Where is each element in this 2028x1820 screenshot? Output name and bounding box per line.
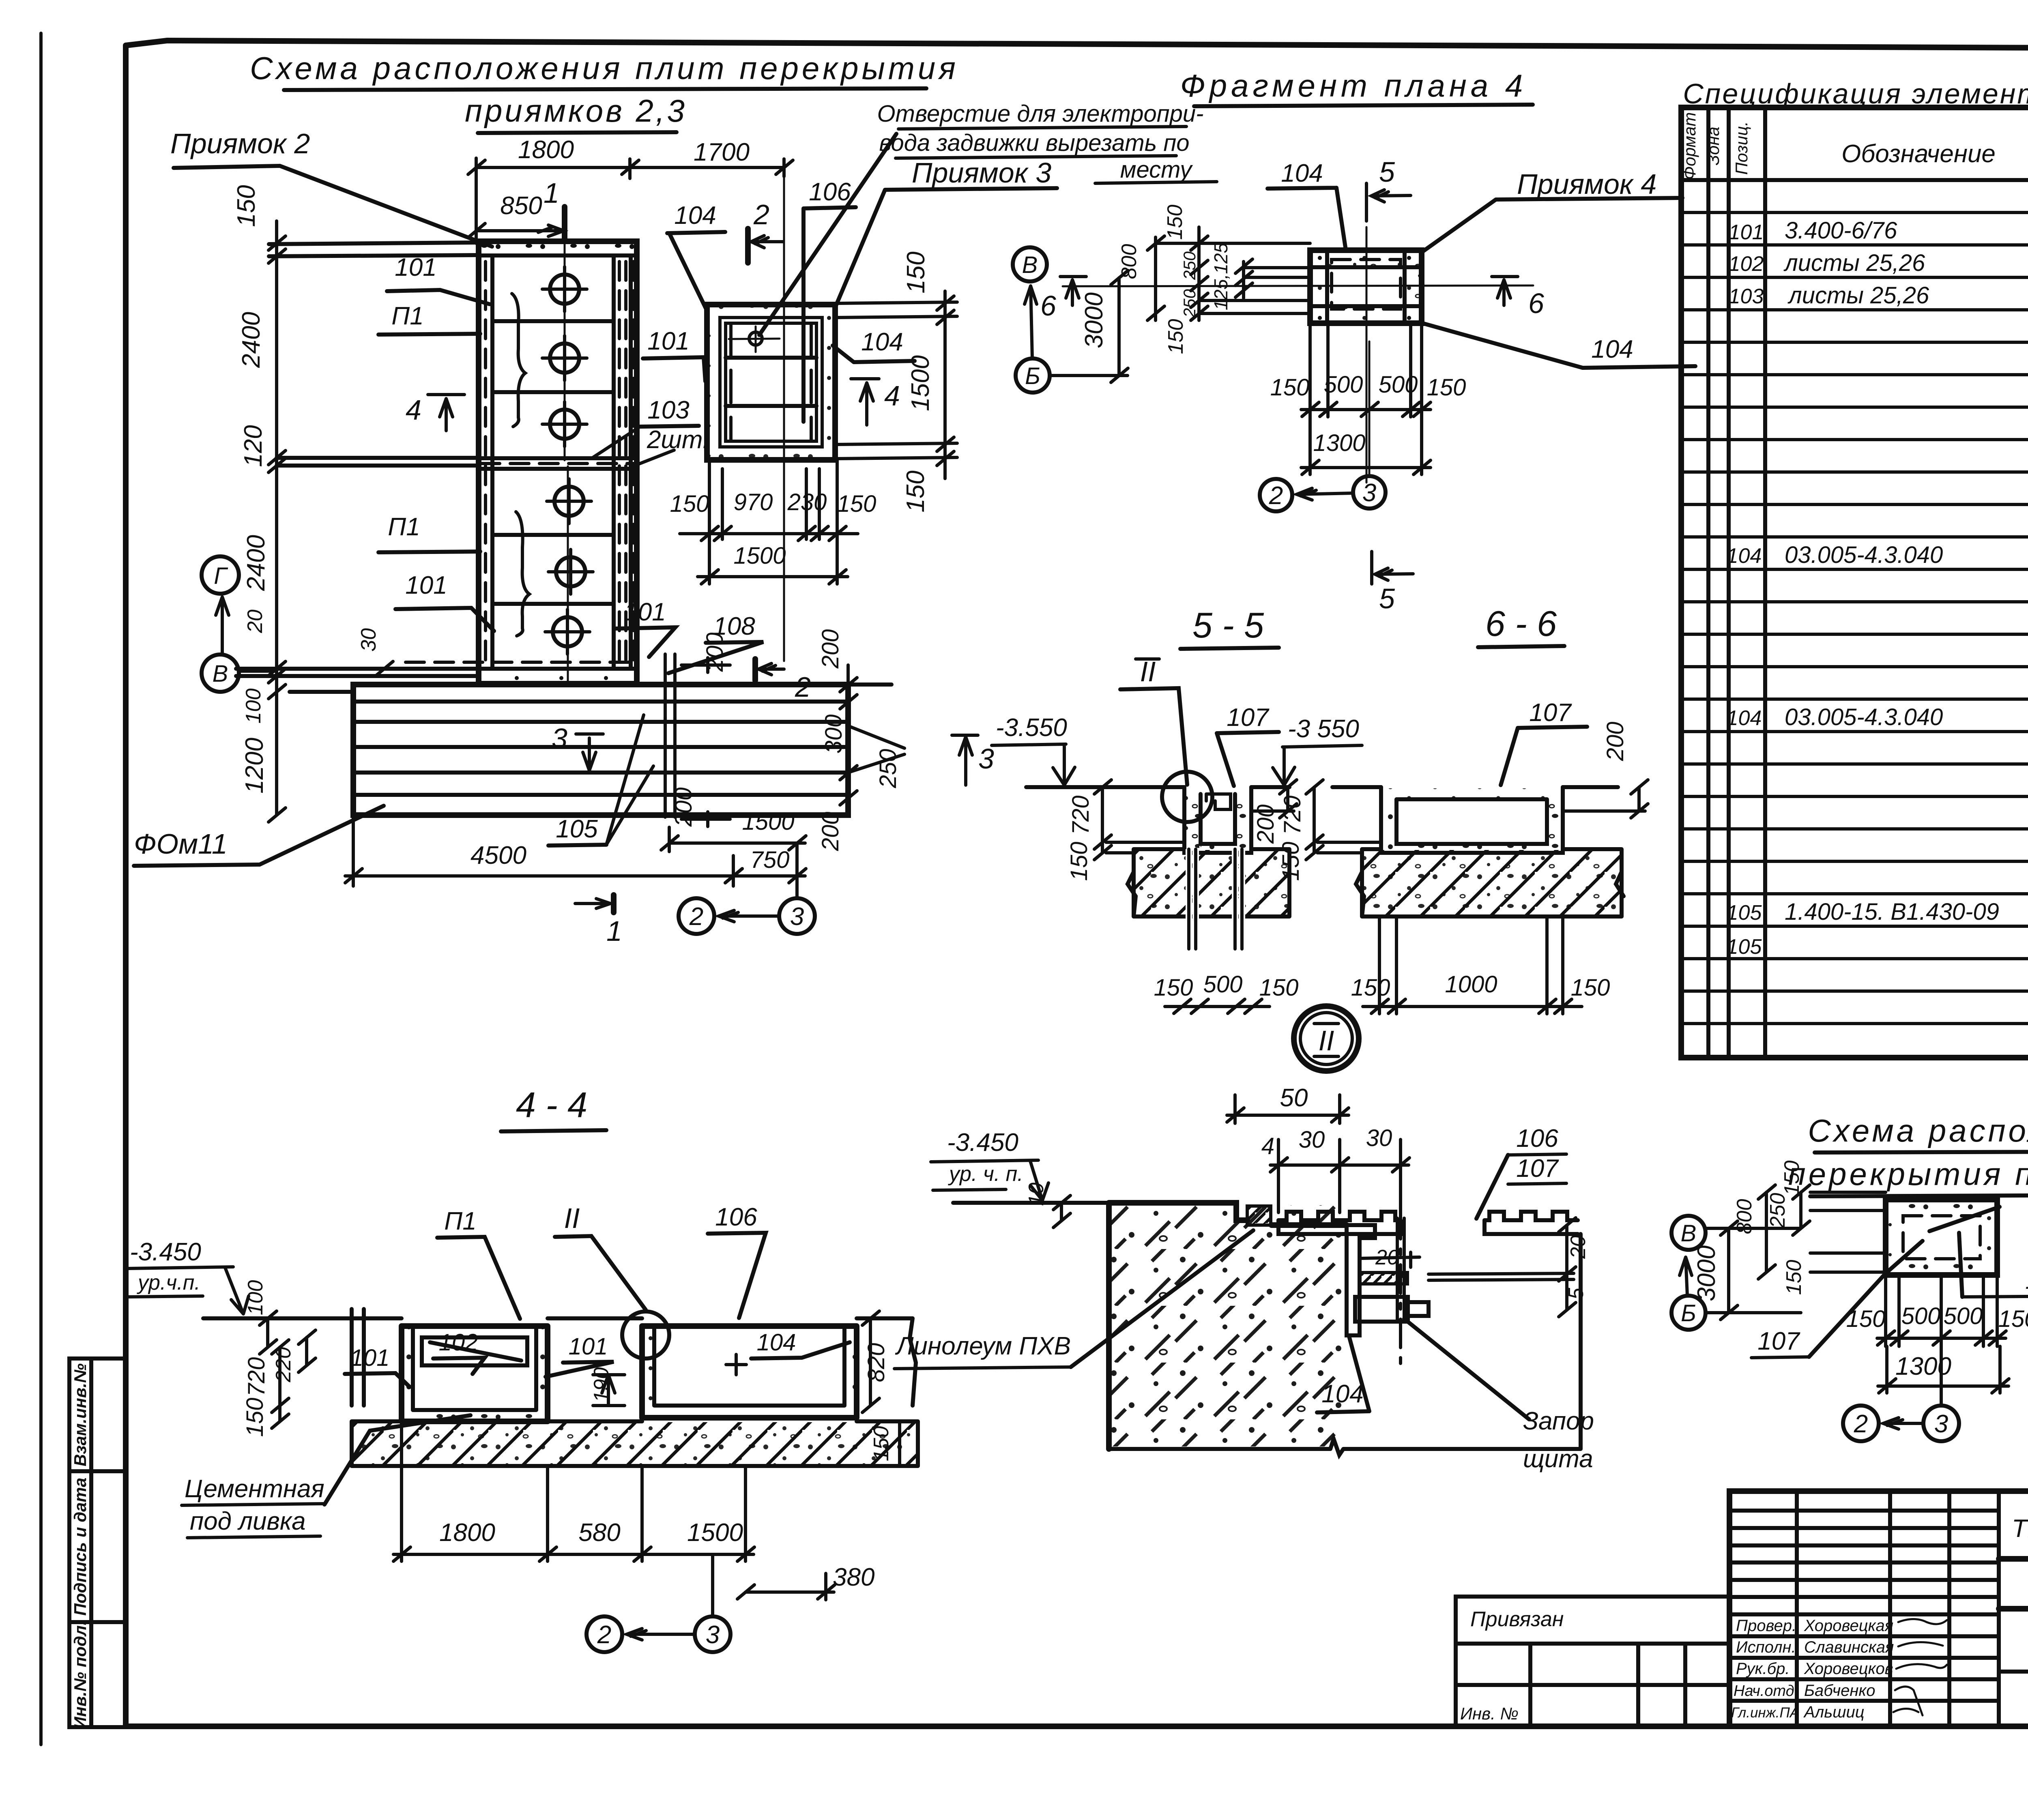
svg-text:970: 970 xyxy=(734,489,773,515)
svg-text:4: 4 xyxy=(406,394,421,426)
dim 50 detail xyxy=(1227,1084,1349,1123)
svg-text:В: В xyxy=(213,661,228,687)
label priyamok 2 xyxy=(170,128,492,247)
svg-text:104: 104 xyxy=(1727,544,1762,568)
otverstie note xyxy=(759,101,1217,335)
svg-text:Б: Б xyxy=(1025,363,1040,389)
level -3.450 detail xyxy=(931,1129,1048,1200)
section 6-6 title xyxy=(1478,603,1564,647)
svg-text:101: 101 xyxy=(405,571,447,599)
svg-text:Цементная: Цементная xyxy=(185,1475,324,1503)
svg-text:месту: месту xyxy=(1120,157,1193,183)
svg-text:1300: 1300 xyxy=(1895,1352,1951,1380)
svg-text:2: 2 xyxy=(753,199,769,230)
svg-text:800: 800 xyxy=(1117,244,1141,279)
svg-text:150: 150 xyxy=(1427,374,1466,401)
svg-text:103: 103 xyxy=(1729,285,1764,308)
svg-text:ур. ч. п.: ур. ч. п. xyxy=(948,1162,1023,1186)
svg-text:100: 100 xyxy=(242,689,265,724)
svg-text:150: 150 xyxy=(1278,842,1304,881)
table row lines xyxy=(1681,212,2028,1024)
svg-text:1: 1 xyxy=(544,177,559,209)
svg-text:Обозначение: Обозначение xyxy=(1841,140,1996,168)
svg-text:106: 106 xyxy=(1516,1125,1558,1153)
svg-text:102: 102 xyxy=(439,1329,478,1356)
svg-text:150: 150 xyxy=(1066,842,1092,881)
svg-text:Провер.: Провер. xyxy=(1736,1617,1796,1635)
svg-text:П1: П1 xyxy=(391,302,423,330)
foundation band 4-4 xyxy=(352,1421,918,1466)
svg-text:104: 104 xyxy=(861,328,903,356)
zapor shchita label xyxy=(1404,1319,1594,1473)
axis circles V B fragment xyxy=(1013,247,1050,393)
svg-text:-3 550: -3 550 xyxy=(1288,715,1359,743)
svg-text:720: 720 xyxy=(1279,796,1306,835)
svg-text:2: 2 xyxy=(1269,482,1283,510)
svg-text:Приямок 2: Приямок 2 xyxy=(170,128,310,159)
svg-text:щита: щита xyxy=(1523,1445,1593,1473)
label 107 6-6 xyxy=(1501,699,1587,785)
dims 5-5 below xyxy=(1154,971,1299,1013)
title scheme plit perekrytiya xyxy=(250,50,959,133)
svg-text:500: 500 xyxy=(1944,1303,1983,1329)
label 104 detail xyxy=(1317,1336,1369,1412)
svg-text:250: 250 xyxy=(1180,289,1199,318)
svg-text:150: 150 xyxy=(232,185,260,227)
svg-text:Приямок 4: Приямок 4 xyxy=(1517,168,1656,200)
svg-text:20: 20 xyxy=(1566,1235,1590,1259)
table grid xyxy=(1681,107,2028,1058)
svg-text:5 - 5: 5 - 5 xyxy=(1192,605,1264,645)
label 105 xyxy=(548,715,653,846)
svg-text:800: 800 xyxy=(1733,1199,1756,1234)
svg-text:1800: 1800 xyxy=(518,136,574,164)
signature rows xyxy=(1731,1617,1947,1721)
svg-text:Хоровецкая: Хоровецкая xyxy=(1804,1617,1893,1635)
sheet left edge xyxy=(39,33,43,1745)
svg-text:5: 5 xyxy=(1379,156,1395,188)
svg-text:3000: 3000 xyxy=(1693,1245,1721,1301)
svg-text:В: В xyxy=(1681,1220,1697,1247)
svg-text:125,125: 125,125 xyxy=(1210,243,1231,310)
wall lines left of plan xyxy=(236,243,479,692)
svg-text:250: 250 xyxy=(1766,1193,1790,1229)
svg-text:вода задвижки вырезать по: вода задвижки вырезать по xyxy=(879,130,1190,156)
grid circles 2 and 3 bottom of plans xyxy=(679,843,815,934)
svg-text:106: 106 xyxy=(809,178,851,206)
svg-text:II: II xyxy=(1319,1025,1334,1056)
svg-text:150: 150 xyxy=(1998,1306,2028,1332)
dims below 4-4 xyxy=(393,1421,874,1600)
svg-text:500: 500 xyxy=(1324,371,1363,398)
svg-text:104: 104 xyxy=(2025,1266,2028,1294)
svg-text:150: 150 xyxy=(1154,974,1193,1001)
svg-text:листы 25,26: листы 25,26 xyxy=(1787,282,1929,309)
svg-text:-3.450: -3.450 xyxy=(130,1238,201,1266)
svg-text:150: 150 xyxy=(1270,374,1310,401)
table rows: FOm11 group xyxy=(1727,867,2028,1056)
label FOm11 xyxy=(134,806,384,866)
svg-text:Бабченко: Бабченко xyxy=(1804,1682,1875,1700)
svg-text:101: 101 xyxy=(624,598,666,626)
labels 106 107 detail xyxy=(1476,1125,1566,1219)
svg-text:2шт.: 2шт. xyxy=(647,426,709,454)
svg-text:Отверстие для электропри-: Отверстие для электропри- xyxy=(877,101,1204,127)
svg-text:Альшиц: Альшиц xyxy=(1803,1703,1865,1721)
svg-text:250: 250 xyxy=(875,749,901,789)
svg-text:ТП А- II -600-338.86: ТП А- II -600-338.86 xyxy=(2012,1515,2028,1543)
svg-text:Хоровецков: Хоровецков xyxy=(1804,1660,1893,1678)
right dim 200 5-5 xyxy=(1251,780,1297,844)
svg-text:Славинская: Славинская xyxy=(1804,1638,1894,1656)
title fragment plana 4 xyxy=(1180,68,1533,106)
svg-text:107: 107 xyxy=(1516,1155,1559,1183)
left dims 6-6 xyxy=(1278,780,1381,881)
svg-text:50: 50 xyxy=(1280,1084,1308,1112)
plan priyamok 2 walls xyxy=(406,241,637,684)
section mark 4 right of plan3 xyxy=(851,379,900,425)
svg-text:Подпись и дата: Подпись и дата xyxy=(71,1478,90,1616)
svg-text:102: 102 xyxy=(1729,252,1764,276)
dims 20 5 right detail xyxy=(1559,1218,1590,1317)
svg-text:В: В xyxy=(1022,252,1038,278)
svg-text:150: 150 xyxy=(902,470,930,512)
detail II concrete mass xyxy=(953,1203,1581,1455)
label 104 scheme xyxy=(1959,1233,2028,1297)
svg-text:1.400-15. В1.430-09: 1.400-15. В1.430-09 xyxy=(1785,899,1999,925)
dim 1500 / 750 right xyxy=(661,809,806,897)
svg-text:150: 150 xyxy=(1163,205,1187,240)
svg-text:104: 104 xyxy=(1591,335,1633,363)
linoleum PHV label xyxy=(894,1230,1253,1369)
label 107 5-5 xyxy=(1217,704,1279,786)
svg-text:Привязан: Привязан xyxy=(1470,1608,1564,1631)
section mark 3 up xyxy=(952,735,994,785)
svg-text:3000: 3000 xyxy=(1080,292,1108,348)
table header text xyxy=(1680,112,2028,180)
svg-text:150: 150 xyxy=(670,491,709,517)
svg-text:106: 106 xyxy=(715,1203,757,1231)
svg-text:104: 104 xyxy=(1321,1380,1363,1408)
svg-text:150: 150 xyxy=(870,1426,893,1462)
svg-text:150: 150 xyxy=(837,491,877,517)
angle 104 hatched xyxy=(1347,1225,1420,1335)
scheme plan rect xyxy=(1886,1200,2000,1275)
svg-text:200: 200 xyxy=(1252,805,1279,844)
svg-text:101: 101 xyxy=(647,327,689,355)
svg-text:Схема расположения элементов: Схема расположения элементов xyxy=(1808,1113,2028,1148)
svg-text:Рук.бр.: Рук.бр. xyxy=(1736,1660,1790,1678)
svg-text:Исполн.: Исполн. xyxy=(1736,1638,1796,1656)
hole circle xyxy=(729,326,780,352)
dims 6-6 below xyxy=(1351,916,1610,1014)
svg-text:20: 20 xyxy=(243,610,267,633)
dim 220 190 820 xyxy=(272,1311,889,1412)
svg-text:03.005-4.3.040: 03.005-4.3.040 xyxy=(1785,704,1943,730)
plan priyamok 3 xyxy=(707,305,835,460)
svg-text:1200: 1200 xyxy=(241,738,269,794)
svg-text:6 - 6: 6 - 6 xyxy=(1485,603,1557,644)
svg-text:4: 4 xyxy=(1261,1133,1274,1159)
section mark 2 bottom xyxy=(755,659,811,703)
svg-text:150: 150 xyxy=(1782,1260,1806,1295)
scheme title xyxy=(1788,1113,2028,1196)
svg-text:105: 105 xyxy=(1727,935,1762,959)
svg-text:107: 107 xyxy=(1227,704,1270,732)
svg-text:-3.450: -3.450 xyxy=(947,1129,1018,1157)
axis circles V B scheme xyxy=(1671,1216,1706,1330)
svg-text:300: 300 xyxy=(821,715,847,754)
svg-text:107: 107 xyxy=(1757,1327,1800,1355)
svg-text:720: 720 xyxy=(243,1357,270,1397)
table rows: priyamok 2 group xyxy=(1729,185,2028,438)
svg-text:перекрытия приямка 4: перекрытия приямка 4 xyxy=(1788,1156,2028,1192)
label 106 4-4 xyxy=(708,1203,766,1318)
labels 101 102 104 inside 4-4 xyxy=(345,1329,850,1387)
svg-text:200: 200 xyxy=(1602,722,1628,762)
linoleum hatched step xyxy=(1247,1206,1271,1225)
svg-text:2: 2 xyxy=(1854,1410,1868,1438)
left dims scheme 800 250 150 150 xyxy=(1733,1161,1886,1295)
svg-text:4500: 4500 xyxy=(470,841,526,869)
beam fom11 xyxy=(353,685,892,815)
svg-text:150: 150 xyxy=(902,251,930,293)
svg-text:Г: Г xyxy=(214,563,228,589)
svg-text:3: 3 xyxy=(978,743,994,775)
svg-text:Приямок 3: Приямок 3 xyxy=(912,157,1051,189)
level -3.550 left xyxy=(992,714,1075,785)
section 6-6 drawing xyxy=(1332,787,1618,853)
svg-text:Инв. №: Инв. № xyxy=(1460,1704,1519,1723)
section 5-5 drawing xyxy=(1026,772,1289,853)
svg-text:107: 107 xyxy=(1529,699,1572,727)
section mark 1 bottom xyxy=(575,895,622,947)
svg-text:4: 4 xyxy=(884,380,900,412)
svg-text:3: 3 xyxy=(1362,479,1376,507)
svg-text:103: 103 xyxy=(647,396,689,424)
svg-text:П1: П1 xyxy=(444,1207,476,1235)
dim 10 detail xyxy=(1025,1183,1070,1228)
svg-text:150: 150 xyxy=(1351,974,1390,1001)
section 5-5 title xyxy=(1180,605,1279,649)
bolt and lock detail xyxy=(1355,1210,1574,1365)
table rows: priyamok 3 group xyxy=(1727,508,2028,632)
svg-text:4 - 4: 4 - 4 xyxy=(516,1085,587,1125)
foundation under 5-5 xyxy=(1128,849,1289,949)
node II label 5-5 xyxy=(1120,656,1187,785)
svg-text:1300: 1300 xyxy=(1313,430,1365,456)
label 104 left of plan 3 xyxy=(667,202,725,309)
dim 100 4-4 xyxy=(244,1280,277,1354)
svg-text:Нач.отд.: Нач.отд. xyxy=(1734,1683,1798,1700)
dim 3000 scheme xyxy=(1693,1221,1801,1320)
svg-text:720: 720 xyxy=(1068,796,1094,835)
table rows: priyamok 4 group xyxy=(1727,670,2028,829)
svg-text:200: 200 xyxy=(817,629,844,669)
grid circles 2 3 scheme xyxy=(1843,1275,1959,1441)
svg-text:Позиц.: Позиц. xyxy=(1732,121,1751,175)
toothed plates detail xyxy=(1278,1212,1578,1234)
grid circles 2 3 under 4-4 xyxy=(586,1554,730,1652)
svg-text:1500: 1500 xyxy=(907,355,935,411)
svg-text:П1: П1 xyxy=(388,513,420,541)
foundation under 6-6 xyxy=(1356,849,1624,916)
dims 4 30 30 detail xyxy=(1261,1125,1409,1217)
svg-text:1700: 1700 xyxy=(694,138,750,166)
right dim 150 4-4 xyxy=(870,1421,900,1466)
svg-text:3: 3 xyxy=(1934,1410,1948,1438)
section mark 4 in plan xyxy=(406,394,464,431)
section mark 3 at beam xyxy=(552,723,603,770)
svg-text:850: 850 xyxy=(500,192,542,220)
dim 850 xyxy=(468,192,565,238)
svg-text:листы 25,26: листы 25,26 xyxy=(1783,250,1925,276)
svg-text:500: 500 xyxy=(1203,971,1243,998)
svg-text:380: 380 xyxy=(833,1563,874,1591)
svg-text:101: 101 xyxy=(350,1345,390,1371)
svg-text:30: 30 xyxy=(357,628,380,652)
svg-text:150: 150 xyxy=(1846,1306,1886,1332)
svg-text:200: 200 xyxy=(817,812,844,852)
svg-text:ур.ч.п.: ур.ч.п. xyxy=(137,1271,200,1294)
svg-text:Запор: Запор xyxy=(1523,1407,1594,1435)
svg-text:1000: 1000 xyxy=(1445,971,1497,998)
dim 4500 xyxy=(345,815,742,886)
svg-text:120: 120 xyxy=(239,425,267,467)
svg-text:2400: 2400 xyxy=(242,535,270,591)
svg-text:150: 150 xyxy=(1259,974,1299,1001)
dims under plan4 xyxy=(1270,323,1466,474)
section mark 1 top xyxy=(544,177,568,684)
dim 1800 / 1700 top xyxy=(468,136,793,661)
svg-text:150: 150 xyxy=(1780,1161,1804,1196)
svg-text:3.400-6/76: 3.400-6/76 xyxy=(1785,217,1897,244)
label 106 xyxy=(803,178,856,422)
svg-text:1500: 1500 xyxy=(733,543,786,569)
svg-text:под ливка: под ливка xyxy=(190,1507,306,1535)
left dims 5-5 xyxy=(1066,780,1184,881)
svg-text:Взам.инв.№: Взам.инв.№ xyxy=(71,1363,90,1466)
svg-text:5: 5 xyxy=(1379,583,1395,614)
right dim 200 6-6 xyxy=(1563,722,1648,818)
svg-text:Фрагмент плана 4: Фрагмент плана 4 xyxy=(1180,68,1527,103)
svg-text:ФОм11: ФОм11 xyxy=(134,828,228,860)
svg-text:1: 1 xyxy=(606,915,622,947)
right chain 200 300 250 200 xyxy=(817,629,904,852)
right dim chain 150 1500 150 2650 xyxy=(838,251,957,512)
svg-text:104: 104 xyxy=(1281,159,1323,187)
svg-text:150: 150 xyxy=(1571,974,1610,1001)
svg-text:Зона: Зона xyxy=(1704,127,1723,165)
svg-text:101: 101 xyxy=(569,1333,608,1360)
svg-text:Б: Б xyxy=(1681,1300,1696,1326)
label 107 scheme xyxy=(1751,1241,1923,1358)
title block grid xyxy=(1729,1491,2028,1726)
svg-text:30: 30 xyxy=(1299,1127,1325,1153)
svg-text:150: 150 xyxy=(1164,319,1188,354)
svg-text:3: 3 xyxy=(552,723,567,754)
svg-text:105: 105 xyxy=(1727,901,1762,925)
label P1 4-4 xyxy=(437,1207,520,1319)
axis circle V left xyxy=(202,597,277,692)
axis circle G xyxy=(202,556,239,594)
left chain 720 150 4-4 xyxy=(242,1340,289,1437)
svg-text:2400: 2400 xyxy=(237,312,265,368)
dims below scheme xyxy=(1846,1275,2028,1393)
svg-text:820: 820 xyxy=(863,1343,889,1382)
svg-text:104: 104 xyxy=(674,202,716,230)
svg-text:Формат: Формат xyxy=(1680,112,1699,180)
svg-text:250: 250 xyxy=(1180,251,1199,280)
svg-text:500: 500 xyxy=(1379,371,1418,398)
plan 4 xyxy=(1310,250,1422,323)
label 103 2sht xyxy=(593,396,709,466)
section line 6-6 horizontal xyxy=(1040,277,1544,322)
left small dims of plan4 xyxy=(1117,205,1310,354)
label priyamok 3 xyxy=(836,157,1057,307)
svg-text:Инв.№ подл.: Инв.№ подл. xyxy=(71,1620,90,1729)
svg-text:Гл.инж.ПА: Гл.инж.ПА xyxy=(1731,1705,1799,1721)
svg-text:104: 104 xyxy=(757,1329,796,1356)
grid circles 2 3 under plan4 xyxy=(1260,476,1386,511)
svg-text:6: 6 xyxy=(1528,288,1544,319)
labels 101 P1 inside plan area xyxy=(378,253,705,657)
svg-text:101: 101 xyxy=(395,253,436,281)
label 104 right of plan3 xyxy=(833,328,915,362)
dims under plan 3 xyxy=(670,460,877,584)
svg-text:II: II xyxy=(564,1202,580,1234)
level -3.450 4-4 xyxy=(128,1238,249,1314)
svg-text:1500: 1500 xyxy=(742,809,794,835)
label priyamok 4 xyxy=(1423,168,1682,251)
svg-text:580: 580 xyxy=(578,1519,620,1547)
section 4-4 ground and pits xyxy=(203,1309,916,1421)
svg-text:105: 105 xyxy=(556,815,598,843)
svg-text:приямков 2,3: приямков 2,3 xyxy=(465,93,687,129)
plate circles xyxy=(542,267,593,654)
svg-text:750: 750 xyxy=(750,847,790,873)
label 104 bottom right xyxy=(1422,323,1695,368)
svg-text:6: 6 xyxy=(1040,290,1056,322)
svg-text:1500: 1500 xyxy=(687,1519,743,1547)
svg-text:-3.550: -3.550 xyxy=(996,714,1067,742)
label 104 top xyxy=(1267,159,1346,250)
svg-text:3: 3 xyxy=(790,903,804,931)
section line 5-5 vertical xyxy=(1366,156,1413,614)
svg-text:3: 3 xyxy=(706,1621,720,1649)
svg-text:100: 100 xyxy=(244,1280,267,1316)
level -3550 for 6-6 xyxy=(1273,715,1362,785)
svg-text:2: 2 xyxy=(597,1621,611,1649)
svg-text:101: 101 xyxy=(1729,221,1764,244)
detail II title circle xyxy=(1294,1006,1359,1071)
svg-text:2: 2 xyxy=(689,903,703,931)
section mark 2 top xyxy=(748,199,783,263)
section 4-4 title xyxy=(501,1085,606,1131)
svg-text:30: 30 xyxy=(1366,1125,1392,1151)
svg-text:150: 150 xyxy=(242,1398,268,1437)
svg-text:Схема расположения плит перек: Схема расположения плит перекрытия xyxy=(250,50,959,86)
svg-text:5: 5 xyxy=(1564,1287,1588,1299)
plate brackets xyxy=(512,294,529,636)
table title xyxy=(1683,78,2028,109)
left dim chain of plan 2 xyxy=(232,185,393,822)
svg-text:1800: 1800 xyxy=(439,1519,495,1547)
svg-text:03.005-4.3.040: 03.005-4.3.040 xyxy=(1785,542,1943,568)
dim 3000 xyxy=(1051,270,1128,382)
title block text TP xyxy=(2012,1514,2028,1543)
svg-text:500: 500 xyxy=(1901,1303,1941,1329)
